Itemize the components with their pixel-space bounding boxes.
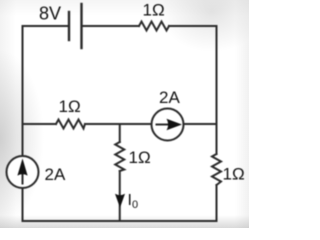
svg-text:I0: I0 bbox=[128, 192, 139, 211]
current source I1 arrow tail bbox=[22, 172, 24, 184]
wire left vertical (bottom segment, current source to bottom-left corner) bbox=[22, 188, 24, 221]
wire middle vertical (node to resistor R3) bbox=[119, 124, 121, 142]
wire left vertical (top segment, top-left corner to current source) bbox=[22, 26, 24, 156]
resistor R2 1ohm (middle-left, horizontal zigzag) bbox=[56, 120, 85, 129]
resistor R4 1ohm (right vertical zigzag) bbox=[212, 154, 221, 185]
current source I2 2A circle (middle) bbox=[152, 109, 184, 141]
wire top (left corner to battery negative plate) bbox=[23, 25, 70, 27]
battery V1 8V negative plate (short) bbox=[68, 12, 70, 40]
svg-text:1Ω: 1Ω bbox=[143, 1, 165, 20]
svg-text:1Ω: 1Ω bbox=[223, 165, 245, 184]
wire bottom (bottom-left corner to bottom-right corner) bbox=[23, 220, 217, 222]
wire middle horizontal (resistor R2 to current source I2) bbox=[85, 123, 152, 125]
battery V1 8V positive plate (tall) bbox=[80, 4, 82, 48]
current source I2 arrow tail bbox=[157, 124, 169, 126]
svg-text:1Ω: 1Ω bbox=[59, 97, 81, 116]
svg-text:2A: 2A bbox=[159, 88, 180, 107]
wire right vertical (top-right corner to resistor R4) bbox=[216, 26, 218, 154]
svg-text:2A: 2A bbox=[45, 165, 66, 184]
wire top (resistor R1 to top-right corner) bbox=[169, 25, 217, 27]
svg-text:1Ω: 1Ω bbox=[129, 148, 151, 167]
wire top (battery positive plate to resistor R1) bbox=[82, 25, 140, 27]
wire middle horizontal (left wire to resistor R2) bbox=[23, 123, 57, 125]
wire middle horizontal (current source I2 to right wire) bbox=[184, 123, 217, 125]
current source I1 arrow head bbox=[17, 158, 27, 175]
resistor R1 1ohm (top, horizontal zigzag) bbox=[139, 22, 169, 31]
wire middle vertical (resistor R3 to bottom wire) bbox=[119, 171, 121, 221]
current arrow I0 head (downward on center wire) bbox=[115, 194, 125, 208]
current source I1 2A circle (left) bbox=[7, 156, 39, 188]
svg-text:8V: 8V bbox=[39, 4, 61, 24]
resistor R3 1ohm (center vertical zigzag) bbox=[115, 142, 124, 171]
wire right vertical (resistor R4 to bottom-right corner) bbox=[216, 185, 218, 221]
current source I2 arrow head bbox=[167, 119, 183, 131]
